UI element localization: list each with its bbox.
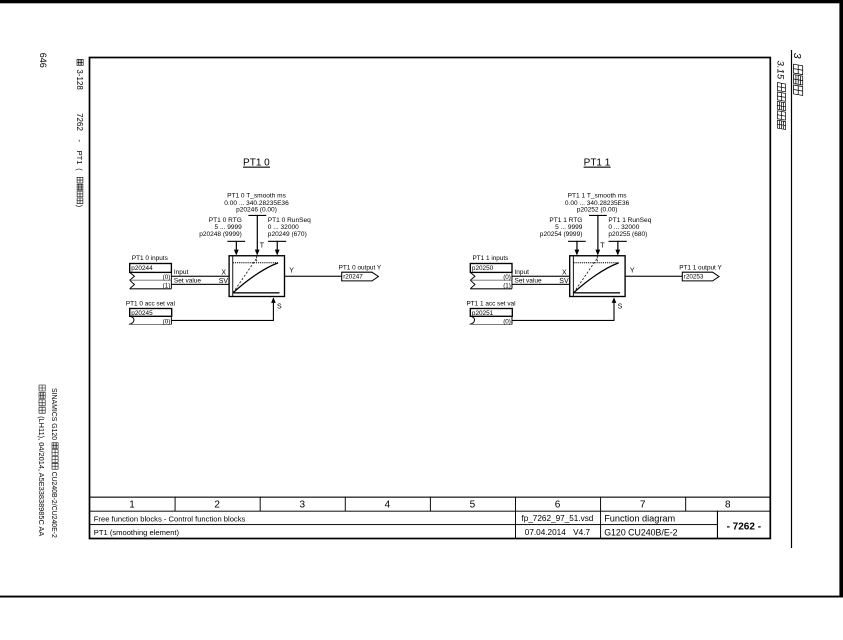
svg-text:PT1 0 RTG: PT1 0 RTG	[209, 217, 242, 224]
connector p20251 row (0)	[470, 316, 475, 324]
graph y-axis	[572, 256, 575, 297]
graph baseline	[233, 292, 280, 293]
graph exponential curve	[574, 263, 619, 293]
svg-text:fp_7262_97_51.vsd: fp_7262_97_51.vsd	[521, 514, 593, 523]
svg-text:Input: Input	[515, 269, 530, 276]
svg-text:(0): (0)	[503, 274, 511, 281]
svg-text:PT1 1 RunSeq: PT1 1 RunSeq	[608, 217, 651, 224]
parameter arrow T p20246	[248, 215, 266, 216]
svg-text:3.15: 3.15	[775, 61, 786, 80]
chapter header rule	[791, 50, 792, 548]
graph T tick dashed	[596, 256, 598, 262]
svg-text:X: X	[562, 269, 567, 276]
svg-text:3-128: 3-128	[75, 69, 84, 90]
page bottom rule	[0, 596, 843, 598]
svg-text:PT1 1 RTG: PT1 1 RTG	[549, 217, 582, 224]
svg-text:r20253: r20253	[684, 274, 704, 281]
svg-text:5: 5	[470, 499, 476, 510]
footer 7262 box	[717, 511, 718, 539]
svg-text:p20255 (680): p20255 (680)	[608, 231, 647, 238]
svg-text:1: 1	[129, 499, 135, 510]
parameter arrow RunSeq p20255	[609, 241, 627, 242]
svg-text:0 ... 32000: 0 ... 32000	[608, 224, 639, 231]
graph T tick dashed	[256, 256, 258, 262]
connector p20250 row (1)	[470, 280, 475, 289]
chapter header: 3 Function diagrams	[791, 53, 803, 96]
footer table lines	[90, 497, 771, 498]
svg-text:Free function blocks - Control: Free function blocks - Control function …	[94, 515, 246, 524]
svg-text:p20248 (9999): p20248 (9999)	[199, 231, 242, 238]
svg-text:p20245: p20245	[131, 310, 153, 317]
svg-text:SINAMICS G120: SINAMICS G120	[50, 388, 57, 440]
footer margin: SINAMICS G120 control unit line	[50, 388, 58, 538]
svg-text:PT1 0 T_smooth ms: PT1 0 T_smooth ms	[227, 192, 287, 199]
wire Input -> X	[171, 276, 229, 277]
svg-text:SV: SV	[559, 278, 569, 285]
graph exponential curve	[233, 263, 278, 293]
svg-text:Input: Input	[174, 269, 189, 276]
svg-text:PT1 (smoothing element): PT1 (smoothing element)	[94, 528, 180, 537]
parameter arrow RunSeq p20249	[268, 241, 286, 242]
svg-text:V4.7: V4.7	[573, 528, 590, 537]
svg-text:8: 8	[725, 499, 731, 510]
parameter arrow RTG p20254	[568, 241, 586, 242]
svg-text:CU240B-2/CU240E-2: CU240B-2/CU240E-2	[50, 472, 57, 538]
wire Y output	[625, 276, 682, 277]
svg-text:PT1 1 acc set val: PT1 1 acc set val	[467, 301, 516, 308]
svg-text:(0): (0)	[163, 318, 171, 325]
svg-text:-: -	[75, 139, 84, 142]
svg-text:07.04.2014: 07.04.2014	[525, 528, 566, 537]
svg-text:(1): (1)	[503, 283, 511, 290]
svg-text:p20250: p20250	[472, 265, 494, 272]
svg-text:(1): (1)	[163, 283, 171, 290]
graph y-axis	[231, 256, 234, 297]
svg-text:G120 CU240B/E-2: G120 CU240B/E-2	[604, 527, 677, 537]
svg-text:- 7262 -: - 7262 -	[727, 521, 761, 532]
svg-text:S: S	[277, 304, 282, 311]
svg-text:p20252 (0.00): p20252 (0.00)	[577, 207, 618, 214]
svg-text:PT1 0 output Y: PT1 0 output Y	[339, 265, 382, 272]
svg-text:6: 6	[555, 499, 561, 510]
svg-text:p20249 (670): p20249 (670)	[268, 231, 307, 238]
caption: fig 3-128 7262 - PT1 (smoothing element)	[75, 59, 84, 207]
svg-text:4: 4	[385, 499, 391, 510]
svg-text:PT1 1 inputs: PT1 1 inputs	[473, 255, 509, 262]
page right border	[839, 0, 843, 597]
svg-text:S: S	[618, 304, 623, 311]
svg-text:): )	[75, 205, 82, 207]
svg-text:SV: SV	[219, 278, 229, 285]
wire Input -> X	[512, 276, 570, 277]
svg-text:PT1: PT1	[75, 151, 84, 165]
svg-text:(0): (0)	[503, 318, 511, 325]
PT1 block U0	[229, 256, 284, 297]
svg-text:3: 3	[299, 499, 305, 510]
svg-text:T: T	[600, 243, 605, 250]
connector p20244 row (1)	[130, 280, 135, 289]
svg-text:p20244: p20244	[131, 265, 153, 272]
svg-text:Set value: Set value	[515, 278, 542, 285]
svg-text:Y: Y	[630, 268, 635, 275]
svg-text:p20246 (0.00): p20246 (0.00)	[236, 207, 277, 214]
svg-text:PT1 0 RunSeq: PT1 0 RunSeq	[268, 217, 311, 224]
svg-text:7262: 7262	[75, 113, 84, 131]
wire Y output	[285, 276, 342, 277]
PT1 block U1	[570, 256, 625, 297]
graph asymptote dotted	[573, 262, 619, 264]
parameter arrow T p20252	[589, 215, 607, 216]
wire acc set val -> S	[172, 320, 274, 321]
svg-text:7: 7	[640, 499, 646, 510]
parameter arrow RTG p20248	[227, 241, 245, 242]
svg-text:3: 3	[791, 53, 803, 59]
graph tangent dashed	[233, 258, 257, 293]
graph asymptote dotted	[233, 262, 279, 264]
wire Set value -> SV	[512, 284, 570, 285]
svg-text:646: 646	[38, 53, 48, 68]
svg-text:p20254 (9999): p20254 (9999)	[540, 231, 583, 238]
svg-text:PT1 1 output Y: PT1 1 output Y	[679, 265, 722, 272]
svg-text:PT1 0 acc set val: PT1 0 acc set val	[126, 301, 175, 308]
svg-text:PT1 0 inputs: PT1 0 inputs	[132, 255, 168, 262]
svg-text:(0): (0)	[163, 274, 171, 281]
svg-text:p20251: p20251	[472, 310, 494, 317]
svg-text:Set value: Set value	[174, 278, 201, 285]
svg-text:Y: Y	[289, 268, 294, 275]
svg-text:5 ... 9999: 5 ... 9999	[555, 224, 583, 231]
drawing frame	[90, 58, 771, 539]
section header: 3.15 Free function blocks	[775, 61, 786, 130]
wire Set value -> SV	[171, 284, 229, 285]
svg-text:r20247: r20247	[343, 274, 363, 281]
graph baseline	[574, 292, 621, 293]
svg-text:2: 2	[214, 499, 220, 510]
svg-text:X: X	[221, 269, 226, 276]
svg-text:Function diagram: Function diagram	[604, 514, 675, 524]
connector p20245 row (0)	[129, 316, 134, 324]
svg-text:5 ... 9999: 5 ... 9999	[214, 224, 242, 231]
svg-text:(LH11), 04/2014, A5E33838985C: (LH11), 04/2014, A5E33838985C AA	[37, 416, 46, 536]
connector p20244 row (0)	[130, 272, 135, 280]
svg-text:0 ... 32000: 0 ... 32000	[268, 224, 299, 231]
page number 646	[38, 53, 48, 68]
page top border	[0, 0, 843, 3]
graph tangent dashed	[574, 258, 598, 293]
svg-text:T: T	[260, 243, 265, 250]
wire acc set val -> S	[512, 320, 614, 321]
connector p20250 row (0)	[470, 272, 475, 280]
footer margin: parameter manual line	[37, 385, 46, 536]
svg-text:PT1 1 T_smooth ms: PT1 1 T_smooth ms	[568, 192, 628, 199]
